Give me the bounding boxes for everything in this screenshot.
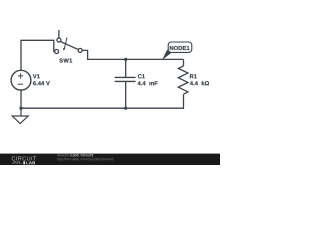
wire: resistor bottom lead to bottom rail [183,94,186,108]
switch blade [61,42,79,50]
capacitor C1 [115,77,136,81]
wire: switch top throw stub [58,30,60,38]
switch left terminal circle [55,50,59,54]
wire: resistor top lead [183,59,185,66]
footer bar [0,154,220,165]
node NODE1 flag [162,42,192,60]
label R1 [190,74,197,78]
footer line 1 [57,154,71,156]
wire: capacitor top lead [125,59,127,77]
switch top terminal circle [57,38,61,42]
label SW1 [59,58,72,62]
minus sign [18,83,23,85]
junction: bottom-left node [19,107,22,110]
junction: capacitor bottom node [124,107,127,110]
switch SW1 [55,30,83,54]
logo LAB text [26,161,35,164]
wire: V1 positive terminal up and over to switch left terminal [21,40,55,70]
footer circuit name [71,154,94,157]
logo CIRCUIT [12,156,37,160]
wire: bottom rail [21,107,184,109]
wire: capacitor bottom lead [125,81,127,108]
wire: V1 bottom to ground junction [20,90,22,108]
switch right terminal circle [78,48,82,52]
resistor R1 [178,66,188,94]
value 6.44 V [33,81,50,85]
plus sign [18,73,23,78]
junction: capacitor top node [124,58,127,61]
wire: switch right terminal to top rail and right branch [82,50,183,59]
value 4.4 kOhm [190,81,209,85]
voltage source V1 [11,70,31,90]
logo waveform [12,162,22,163]
ground [12,108,28,123]
value 4.4 mF [138,81,158,85]
label V1 [33,74,40,78]
logo block [23,161,25,164]
footer line 2 [57,158,113,161]
label C1 [138,74,145,78]
switch actuator arrow [64,38,67,49]
